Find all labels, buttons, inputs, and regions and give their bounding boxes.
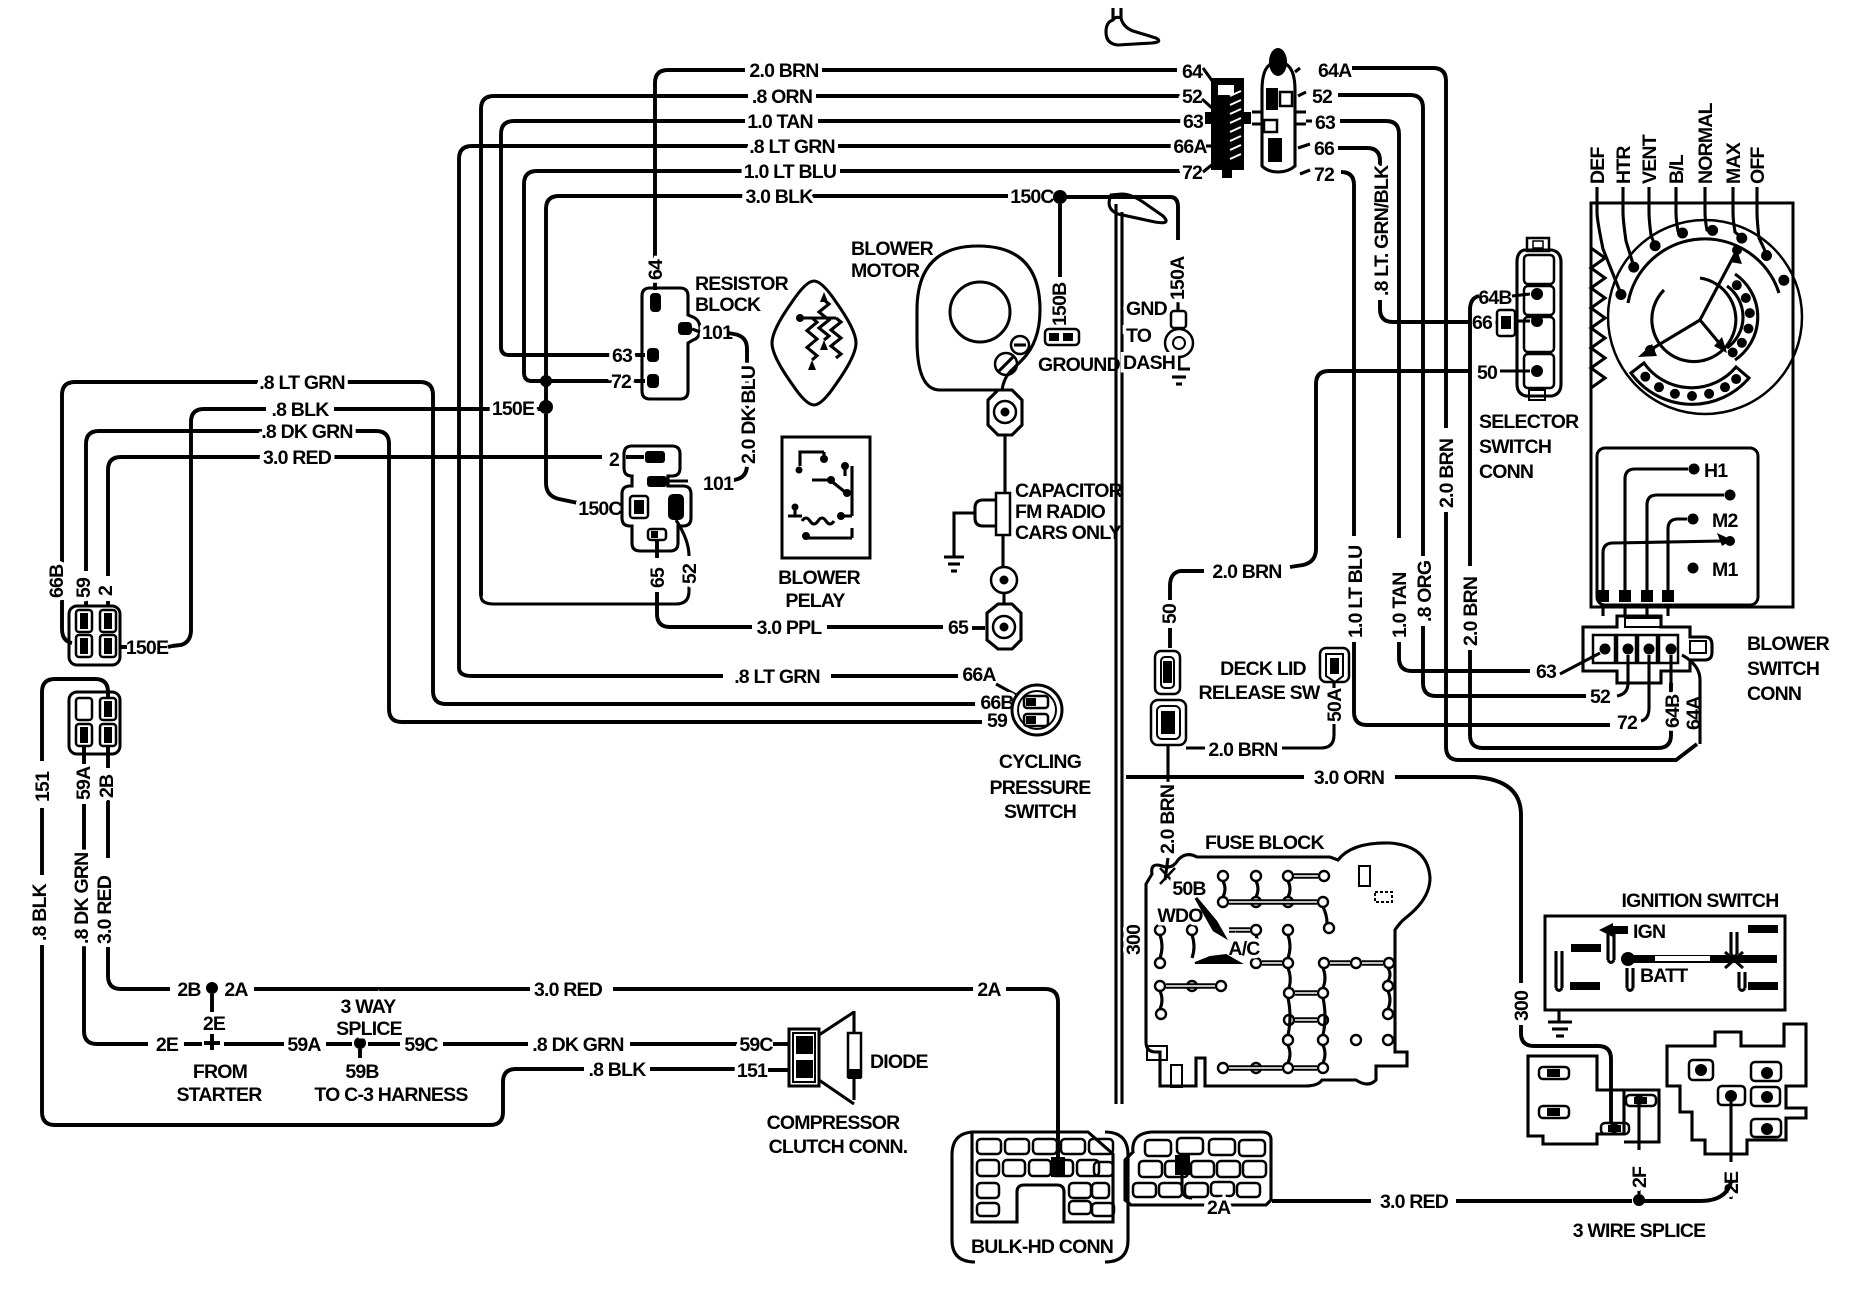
- svg-text:.8 ORG: .8 ORG: [1414, 561, 1436, 622]
- svg-text:50: 50: [1159, 603, 1181, 624]
- svg-text:CONN: CONN: [1479, 461, 1533, 483]
- svg-text:1.0 LT BLU: 1.0 LT BLU: [1345, 546, 1367, 638]
- svg-text:300: 300: [1123, 924, 1145, 955]
- svg-text:.8 LT GRN: .8 LT GRN: [734, 666, 820, 688]
- svg-text:TO: TO: [1126, 325, 1152, 347]
- svg-text:DECK LID: DECK LID: [1220, 658, 1306, 680]
- svg-text:151: 151: [32, 771, 54, 802]
- svg-text:2: 2: [609, 449, 620, 471]
- svg-text:.8 DK GRN: .8 DK GRN: [532, 1034, 623, 1056]
- svg-text:52: 52: [1182, 86, 1203, 108]
- svg-text:FM RADIO: FM RADIO: [1015, 501, 1106, 523]
- svg-text:3.0 BLK: 3.0 BLK: [745, 186, 813, 208]
- svg-text:2.0 BRN: 2.0 BRN: [1436, 439, 1458, 508]
- svg-text:64B: 64B: [1478, 287, 1512, 309]
- svg-text:66: 66: [1314, 138, 1335, 160]
- svg-text:.8 DK GRN: .8 DK GRN: [71, 853, 93, 944]
- svg-text:CAPACITOR: CAPACITOR: [1015, 480, 1123, 502]
- svg-text:TO C-3 HARNESS: TO C-3 HARNESS: [314, 1084, 468, 1106]
- svg-text:CARS ONLY: CARS ONLY: [1015, 522, 1122, 544]
- svg-text:OFF: OFF: [1747, 147, 1769, 184]
- svg-text:2A: 2A: [1207, 1197, 1231, 1219]
- svg-text:SELECTOR: SELECTOR: [1479, 411, 1579, 433]
- svg-text:50A: 50A: [1324, 688, 1346, 722]
- svg-text:3.0 RED: 3.0 RED: [534, 979, 603, 1001]
- svg-text:.8 LT GRN: .8 LT GRN: [259, 372, 345, 394]
- svg-text:3.0 PPL: 3.0 PPL: [757, 617, 823, 639]
- svg-text:59: 59: [987, 710, 1008, 732]
- svg-text:52: 52: [1590, 686, 1611, 708]
- svg-text:2B: 2B: [96, 774, 118, 798]
- svg-text:STARTER: STARTER: [176, 1084, 262, 1106]
- svg-text:72: 72: [1314, 164, 1335, 186]
- svg-text:.8 LT. GRN/BLK: .8 LT. GRN/BLK: [1371, 165, 1393, 296]
- svg-text:MAX: MAX: [1723, 142, 1745, 184]
- svg-text:IGNITION SWITCH: IGNITION SWITCH: [1622, 890, 1779, 912]
- svg-text:64A: 64A: [1318, 60, 1352, 82]
- svg-text:59C: 59C: [739, 1034, 773, 1056]
- svg-text:151: 151: [737, 1060, 768, 1082]
- svg-text:1.0 LT BLU: 1.0 LT BLU: [744, 161, 836, 183]
- svg-text:.8 DK GRN: .8 DK GRN: [261, 421, 352, 443]
- svg-text:CONN: CONN: [1747, 683, 1801, 705]
- svg-text:59B: 59B: [345, 1061, 379, 1083]
- svg-text:SPLICE: SPLICE: [336, 1018, 402, 1040]
- svg-text:63: 63: [1536, 661, 1557, 683]
- svg-text:59C: 59C: [404, 1034, 438, 1056]
- svg-text:DIODE: DIODE: [870, 1051, 929, 1073]
- svg-text:2.0 BRN: 2.0 BRN: [1157, 785, 1179, 854]
- svg-text:DEF: DEF: [1587, 147, 1609, 184]
- svg-text:GROUND: GROUND: [1038, 354, 1121, 376]
- svg-text:VENT: VENT: [1639, 134, 1661, 184]
- svg-text:NORMAL: NORMAL: [1695, 102, 1717, 184]
- svg-text:101: 101: [703, 473, 734, 495]
- svg-text:CLUTCH CONN.: CLUTCH CONN.: [769, 1136, 908, 1158]
- svg-text:2E: 2E: [203, 1013, 226, 1035]
- svg-text:64A: 64A: [1683, 696, 1705, 730]
- svg-text:SWITCH: SWITCH: [1479, 436, 1551, 458]
- svg-text:72: 72: [1617, 712, 1638, 734]
- svg-text:2.0 BRN: 2.0 BRN: [1212, 561, 1281, 583]
- svg-text:64B: 64B: [1662, 694, 1684, 728]
- svg-text:150E: 150E: [126, 637, 169, 659]
- svg-text:SWITCH: SWITCH: [1004, 801, 1076, 823]
- svg-text:.8 BLK: .8 BLK: [589, 1059, 647, 1081]
- svg-text:66A: 66A: [1173, 136, 1207, 158]
- svg-text:72: 72: [1182, 162, 1203, 184]
- svg-text:50: 50: [1477, 362, 1498, 384]
- svg-text:.8 LT GRN: .8 LT GRN: [749, 136, 835, 158]
- svg-text:HTR: HTR: [1613, 146, 1635, 184]
- svg-text:63: 63: [1315, 112, 1336, 134]
- svg-text:COMPRESSOR: COMPRESSOR: [767, 1112, 901, 1134]
- svg-text:BLOWER: BLOWER: [778, 567, 861, 589]
- svg-text:PRESSURE: PRESSURE: [990, 777, 1092, 799]
- svg-text:.8 ORN: .8 ORN: [752, 86, 812, 108]
- svg-text:A/C: A/C: [1228, 938, 1260, 960]
- svg-text:2E: 2E: [156, 1034, 179, 1056]
- svg-text:H1: H1: [1704, 460, 1728, 482]
- svg-text:M1: M1: [1712, 559, 1738, 581]
- svg-text:300: 300: [1511, 990, 1533, 1021]
- svg-text:.8 BLK: .8 BLK: [272, 399, 330, 421]
- svg-text:2.0 DK BLU: 2.0 DK BLU: [738, 366, 760, 464]
- svg-text:150C: 150C: [578, 498, 622, 520]
- svg-text:RELEASE SW: RELEASE SW: [1199, 682, 1321, 704]
- svg-text:2F: 2F: [1629, 1166, 1651, 1188]
- svg-text:RESISTOR: RESISTOR: [695, 273, 789, 295]
- svg-text:59A: 59A: [73, 766, 95, 800]
- svg-text:150E: 150E: [492, 398, 535, 420]
- svg-text:2A: 2A: [977, 979, 1001, 1001]
- svg-text:BLOWER: BLOWER: [851, 238, 934, 260]
- svg-text:BLOWER: BLOWER: [1747, 633, 1830, 655]
- svg-text:150B: 150B: [1049, 282, 1071, 326]
- svg-text:50B: 50B: [1172, 878, 1206, 900]
- svg-text:1.0 TAN: 1.0 TAN: [747, 111, 813, 133]
- svg-text:FUSE BLOCK: FUSE BLOCK: [1205, 832, 1324, 854]
- svg-text:59: 59: [73, 577, 95, 598]
- svg-text:65: 65: [647, 567, 669, 588]
- svg-text:2.0 BRN: 2.0 BRN: [1460, 577, 1482, 646]
- svg-text:DASH: DASH: [1123, 352, 1175, 374]
- svg-text:59A: 59A: [287, 1034, 321, 1056]
- svg-text:B/L: B/L: [1666, 154, 1688, 184]
- svg-text:3.0 RED: 3.0 RED: [94, 875, 116, 944]
- svg-text:MOTOR: MOTOR: [851, 260, 920, 282]
- svg-text:1.0 TAN: 1.0 TAN: [1389, 572, 1411, 638]
- svg-text:150C: 150C: [1010, 186, 1054, 208]
- svg-text:CYCLING: CYCLING: [999, 751, 1081, 773]
- svg-text:52: 52: [679, 563, 701, 584]
- svg-text:BULK-HD CONN: BULK-HD CONN: [971, 1236, 1113, 1258]
- svg-text:FROM: FROM: [193, 1061, 247, 1083]
- svg-text:IGN: IGN: [1633, 921, 1665, 943]
- svg-text:SWITCH: SWITCH: [1747, 658, 1819, 680]
- svg-text:3.0 ORN: 3.0 ORN: [1314, 767, 1384, 789]
- svg-text:2A: 2A: [224, 979, 248, 1001]
- svg-text:2.0 BRN: 2.0 BRN: [749, 60, 818, 82]
- svg-text:72: 72: [611, 371, 632, 393]
- svg-text:66B: 66B: [46, 564, 68, 598]
- svg-text:150A: 150A: [1167, 256, 1189, 300]
- svg-text:2.0 BRN: 2.0 BRN: [1208, 739, 1277, 761]
- svg-text:3.0 RED: 3.0 RED: [263, 447, 332, 469]
- svg-text:64: 64: [645, 259, 667, 280]
- svg-text:PELAY: PELAY: [785, 590, 845, 612]
- svg-text:3 WAY: 3 WAY: [341, 996, 397, 1018]
- svg-text:M2: M2: [1712, 510, 1738, 532]
- svg-text:52: 52: [1312, 86, 1333, 108]
- svg-text:65: 65: [948, 617, 969, 639]
- svg-text:64: 64: [1182, 61, 1203, 83]
- svg-text:3.0 RED: 3.0 RED: [1380, 1191, 1449, 1213]
- svg-text:WDO: WDO: [1157, 905, 1203, 927]
- svg-text:63: 63: [1183, 111, 1204, 133]
- svg-text:66A: 66A: [962, 664, 996, 686]
- svg-text:BATT: BATT: [1640, 965, 1688, 987]
- svg-text:.8 BLK: .8 BLK: [29, 883, 51, 941]
- svg-text:GND: GND: [1126, 298, 1168, 320]
- svg-text:2B: 2B: [177, 979, 201, 1001]
- svg-text:2: 2: [95, 585, 117, 596]
- svg-text:66: 66: [1472, 312, 1493, 334]
- svg-text:63: 63: [612, 345, 633, 367]
- svg-text:3 WIRE SPLICE: 3 WIRE SPLICE: [1573, 1220, 1706, 1242]
- svg-text:BLOCK: BLOCK: [695, 294, 761, 316]
